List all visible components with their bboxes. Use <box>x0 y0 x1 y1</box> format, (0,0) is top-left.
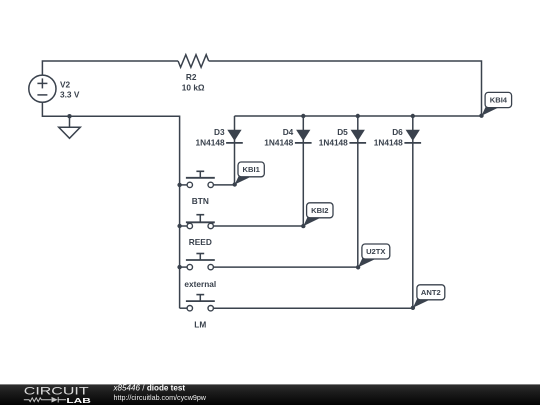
svg-text:x85446 / diode test: x85446 / diode test <box>113 384 186 393</box>
resistor R2 <box>178 55 209 68</box>
flag U2TX <box>356 244 390 269</box>
svg-text:1N4148: 1N4148 <box>374 138 403 148</box>
svg-text:V2: V2 <box>60 80 71 90</box>
ground <box>59 127 81 138</box>
node REED tap <box>177 224 181 228</box>
svg-text:KBI2: KBI2 <box>311 206 328 215</box>
diode D3 <box>196 116 243 185</box>
flag KBI4 <box>479 92 511 118</box>
svg-text:KBI1: KBI1 <box>243 165 261 174</box>
svg-text:ANT2: ANT2 <box>421 288 441 297</box>
svg-text:1N4148: 1N4148 <box>319 138 348 148</box>
switch REED <box>180 215 304 229</box>
wire top from V2 to resistor <box>42 61 178 75</box>
svg-text:3.3 V: 3.3 V <box>60 90 80 100</box>
node BTN tap <box>177 183 181 187</box>
diode D6 <box>374 114 421 308</box>
node ground tap <box>67 114 71 118</box>
wire diode bus <box>235 115 482 117</box>
flag KBI2 <box>301 203 333 229</box>
wire ground stem <box>69 116 71 127</box>
svg-text:10 kΩ: 10 kΩ <box>182 82 205 92</box>
wire top from resistor to right side down to diode bus <box>209 61 482 116</box>
svg-text:external: external <box>184 279 216 289</box>
logo squiggle resistor and diode <box>24 397 66 403</box>
flag ANT2 <box>411 285 445 310</box>
svg-text:R2: R2 <box>186 72 197 82</box>
svg-text:LAB: LAB <box>66 396 90 405</box>
svg-text:REED: REED <box>189 237 212 247</box>
svg-text:D6: D6 <box>392 127 403 137</box>
svg-text:http://circuitlab.com/cycw9pw: http://circuitlab.com/cycw9pw <box>114 394 207 402</box>
svg-text:BTN: BTN <box>192 196 209 206</box>
voltage source V2 <box>29 75 56 102</box>
svg-text:D4: D4 <box>283 127 294 137</box>
wire V2 bottom to switch column <box>42 102 179 308</box>
svg-text:LM: LM <box>194 320 206 330</box>
switch external <box>180 254 359 270</box>
svg-text:1N4148: 1N4148 <box>264 138 293 148</box>
switch BTN <box>180 171 235 187</box>
svg-text:U2TX: U2TX <box>366 247 385 256</box>
diode D5 <box>319 114 366 267</box>
svg-text:1N4148: 1N4148 <box>196 138 225 148</box>
node external tap <box>177 265 181 269</box>
svg-text:KBI4: KBI4 <box>490 96 508 105</box>
svg-text:D5: D5 <box>337 127 348 137</box>
diode D4 <box>264 114 311 226</box>
svg-text:D3: D3 <box>214 127 225 137</box>
switch LM <box>180 295 413 311</box>
flag KBI1 <box>233 162 265 187</box>
